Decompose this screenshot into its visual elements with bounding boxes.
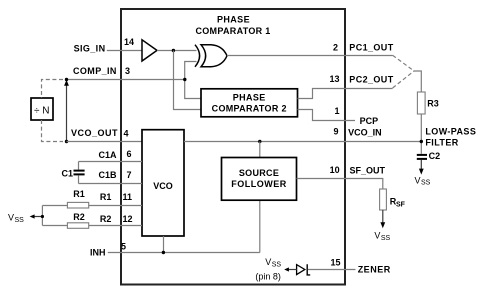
svg-text:7: 7: [127, 170, 132, 180]
svg-text:5: 5: [121, 241, 126, 251]
svg-text:COMPARATOR 2: COMPARATOR 2: [212, 103, 287, 113]
svg-text:SF_OUT: SF_OUT: [350, 166, 386, 176]
svg-text:SS: SS: [381, 235, 391, 242]
dashed wire PC2_OUT to filter: [393, 71, 414, 88]
arrow to VSS left: [30, 214, 35, 218]
svg-text:V: V: [374, 231, 380, 241]
node junction COMP_IN left: [65, 78, 68, 81]
svg-text:INH: INH: [90, 247, 106, 257]
svg-text:PCP: PCP: [360, 116, 379, 126]
wire INH up to source follower: [259, 200, 261, 252]
wire VCO out right to pin 9 and low-pass filter: [184, 141, 421, 143]
capacitor C2: [417, 155, 427, 159]
wire filter top link to R3: [414, 71, 422, 92]
svg-text:VCO: VCO: [153, 181, 173, 191]
svg-text:R2: R2: [100, 214, 112, 224]
label PHASE COMPARATOR 1: [195, 15, 270, 36]
label SOURCE FOLLOWER: [231, 168, 287, 189]
svg-text:LOW-PASS: LOW-PASS: [425, 126, 476, 136]
wire dashed divider top link: [42, 80, 64, 99]
wire C2 bottom: [420, 160, 422, 170]
svg-text:C2: C2: [429, 151, 441, 161]
wire VSS tap: [34, 216, 42, 218]
arrow RSF to VSS: [380, 222, 385, 228]
svg-text:15: 15: [331, 257, 341, 267]
wire R1 to VCO: [89, 205, 142, 207]
svg-text:10: 10: [330, 165, 340, 175]
svg-text:14: 14: [124, 37, 134, 47]
node junction VCO_OUT left: [65, 140, 68, 143]
wire PC2 output 1 to pin 13: [298, 89, 393, 99]
svg-text:COMPARATOR 1: COMPARATOR 1: [195, 26, 270, 36]
svg-text:13: 13: [330, 74, 340, 84]
dashed wire PC1_OUT to filter: [393, 55, 414, 71]
svg-text:PC1_OUT: PC1_OUT: [349, 43, 393, 53]
svg-text:ZENER: ZENER: [358, 264, 391, 274]
wire R3 bottom to C2: [420, 114, 422, 154]
wire buffer output to XOR: [157, 50, 197, 52]
wire SF_OUT: [297, 179, 383, 190]
svg-text:FILTER: FILTER: [425, 138, 458, 148]
node junction buffer out: [172, 49, 175, 52]
svg-text:PHASE: PHASE: [217, 15, 250, 25]
divider box N: [31, 98, 53, 120]
svg-text:R2: R2: [73, 212, 85, 222]
svg-text:SF: SF: [396, 201, 406, 208]
wire junction down to PC2 input 2: [174, 51, 202, 110]
node junction source follower input: [258, 140, 261, 143]
svg-text:FOLLOWER: FOLLOWER: [231, 179, 287, 189]
svg-text:R3: R3: [427, 99, 439, 109]
svg-text:PC2_OUT: PC2_OUT: [349, 74, 393, 84]
svg-text:COMP_IN: COMP_IN: [73, 66, 117, 76]
svg-text:2: 2: [333, 42, 338, 52]
wire source follower input stub: [259, 142, 261, 158]
resistor R1: [67, 202, 88, 208]
svg-text:C1B: C1B: [99, 170, 118, 180]
svg-text:9: 9: [334, 127, 339, 137]
svg-text:(pin 8): (pin 8): [255, 271, 281, 281]
VCO box: [142, 130, 184, 236]
XOR gate phase comparator 1: [195, 45, 227, 67]
wire PC2 output 2 to pin 1 PCP: [298, 110, 356, 121]
wire R1 left: [42, 205, 67, 207]
svg-text:4: 4: [124, 129, 129, 139]
svg-text:SS: SS: [421, 180, 431, 187]
svg-text:SIG_IN: SIG_IN: [74, 43, 106, 53]
svg-text:VCO_OUT: VCO_OUT: [71, 128, 118, 138]
wire C1B: [79, 183, 143, 185]
phase comparator 2 box: [201, 89, 298, 117]
arrow C2 to VSS: [419, 169, 424, 175]
label RSF: [390, 197, 406, 209]
zener diode D1: [297, 264, 311, 275]
source follower box: [222, 158, 297, 201]
svg-text:VCO_IN: VCO_IN: [348, 127, 382, 137]
node junction COMP_IN: [183, 78, 186, 81]
svg-text:R1: R1: [100, 192, 112, 202]
node VSS label below RSF: [374, 231, 390, 242]
node VSS label below C2: [415, 175, 431, 186]
resistor R3: [417, 92, 425, 114]
node junction INH VCO: [162, 251, 165, 254]
svg-text:÷ N: ÷ N: [34, 105, 50, 116]
wire COMP_IN: [67, 79, 186, 81]
wire COMP_IN junction down to PC2 input 1: [185, 80, 201, 99]
svg-text:C1: C1: [62, 169, 74, 179]
node VSS left label: [8, 212, 24, 223]
node junction bracket: [41, 215, 44, 218]
wire C1A: [79, 161, 143, 163]
wire resistor bracket vertical: [41, 206, 43, 226]
svg-text:V: V: [8, 212, 14, 222]
resistor R2: [67, 223, 88, 229]
svg-text:11: 11: [123, 192, 133, 202]
resistor RSF: [380, 189, 387, 210]
IC package outline U1: [121, 9, 345, 285]
node VSS pin8 label: [255, 257, 281, 281]
wire pin 15 ZENER: [308, 269, 356, 271]
wire feedback VCO_OUT to COMP_IN: [66, 84, 68, 142]
wire R2 to VCO: [89, 225, 142, 227]
svg-text:6: 6: [127, 149, 132, 159]
wire zener to VSS arrow: [289, 269, 297, 271]
node junction VCO_IN R3: [420, 140, 423, 143]
label PHASE COMPARATOR 2: [212, 92, 287, 113]
wire R2 left: [42, 225, 67, 227]
wire VCO_OUT to VCO: [67, 141, 143, 143]
wire COMP_IN junction up to XOR lower input: [185, 62, 197, 80]
svg-text:1: 1: [335, 106, 340, 116]
svg-text:SS: SS: [272, 261, 282, 268]
wire RSF bottom: [382, 210, 384, 223]
svg-text:12: 12: [123, 214, 133, 224]
svg-text:V: V: [265, 257, 271, 267]
node LOW-PASS FILTER label: [425, 126, 476, 147]
wire INH: [108, 252, 260, 254]
svg-text:SOURCE: SOURCE: [239, 168, 279, 178]
svg-text:V: V: [415, 175, 421, 185]
wire VCO bottom stub: [163, 236, 165, 253]
wire XOR output pin 2: [227, 55, 393, 57]
arrow into COMP_IN: [64, 80, 69, 86]
svg-text:3: 3: [125, 66, 130, 76]
wire dashed divider bottom link: [42, 120, 64, 142]
buffer amplifier A1: [142, 40, 157, 61]
svg-text:R1: R1: [73, 189, 85, 199]
svg-text:SS: SS: [15, 217, 25, 224]
svg-text:PHASE: PHASE: [233, 92, 266, 102]
arrow zener to VSS: [284, 267, 289, 271]
wire SIG_IN to buffer: [107, 50, 142, 52]
svg-text:C1A: C1A: [99, 150, 118, 160]
capacitor C1: [74, 162, 85, 184]
